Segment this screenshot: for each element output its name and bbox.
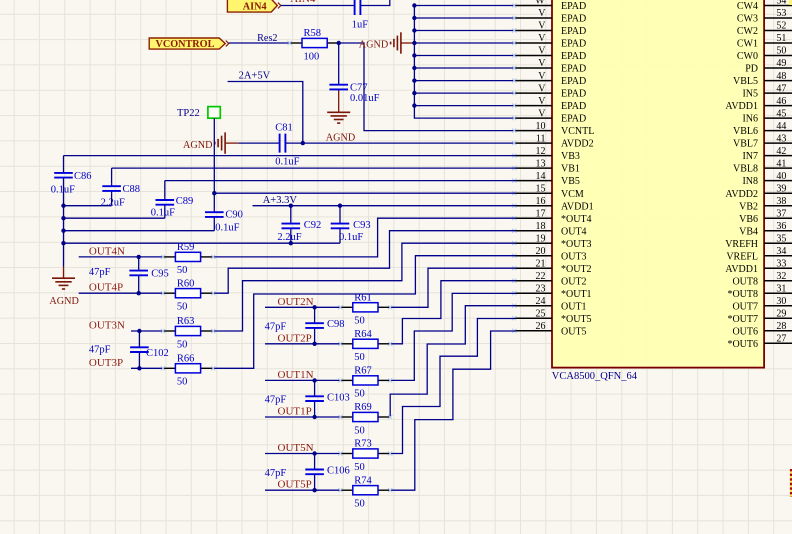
- svg-text:*OUT7: *OUT7: [727, 314, 758, 325]
- wire EPAD row 6: [414, 80, 515, 82]
- svg-text:VB1: VB1: [561, 164, 580, 175]
- wire R63 to pin *OUT3: [213, 243, 515, 331]
- svg-text:V: V: [538, 33, 546, 44]
- svg-text:54: 54: [776, 0, 786, 7]
- svg-text:37: 37: [776, 208, 786, 219]
- wire C90 top lead: [213, 193, 215, 210]
- pin 13 VB1: [515, 158, 580, 174]
- svg-text:OUT3N: OUT3N: [89, 320, 125, 332]
- pin V EPAD: [515, 46, 586, 62]
- pin V EPAD: [515, 83, 586, 99]
- svg-text:OUT2N: OUT2N: [278, 296, 314, 308]
- port AIN4: [227, 0, 280, 13]
- svg-text:50: 50: [354, 425, 365, 436]
- svg-text:C92: C92: [304, 220, 322, 231]
- svg-text:VBL7: VBL7: [733, 139, 758, 150]
- svg-text:23: 23: [536, 283, 546, 294]
- svg-text:28: 28: [776, 321, 786, 332]
- svg-text:10: 10: [536, 121, 546, 132]
- capacitor C92: [282, 220, 301, 231]
- svg-text:0.1uF: 0.1uF: [215, 222, 239, 233]
- pin V EPAD: [515, 71, 586, 87]
- pin 53 CW3: [737, 8, 792, 24]
- pin 50 CW0: [737, 46, 792, 62]
- pin 17 *OUT4: [515, 208, 591, 224]
- pin 39 AVDD2: [725, 183, 792, 199]
- svg-text:C93: C93: [353, 220, 371, 231]
- svg-text:51: 51: [776, 33, 786, 44]
- svg-text:AVDD1: AVDD1: [725, 264, 758, 275]
- pin 36 VB4: [739, 221, 792, 237]
- svg-text:OUT7: OUT7: [732, 301, 758, 312]
- svg-text:0.1uF: 0.1uF: [151, 207, 175, 218]
- pin 35 VREFH: [725, 233, 792, 249]
- wire EPAD row 3: [414, 42, 515, 44]
- pin 14 VB5: [515, 171, 580, 187]
- svg-text:12: 12: [536, 146, 546, 157]
- junction C102 bottom: [137, 366, 141, 370]
- junction C103 top: [312, 378, 316, 382]
- svg-text:V: V: [538, 96, 546, 107]
- junction EPAD bus row 4: [412, 53, 416, 57]
- wire EPAD row 0: [414, 5, 515, 7]
- svg-text:16: 16: [536, 196, 546, 207]
- wire OUT3P left: [131, 367, 163, 369]
- svg-text:50: 50: [177, 339, 188, 350]
- pin 40 IN8: [742, 171, 792, 187]
- no-ERC markers at resistors: [161, 41, 392, 492]
- svg-text:AGND: AGND: [326, 133, 355, 144]
- svg-text:V: V: [538, 8, 546, 19]
- pin 51 CW1: [737, 33, 792, 49]
- svg-text:*OUT3: *OUT3: [561, 239, 592, 250]
- svg-text:OUT3: OUT3: [561, 251, 587, 262]
- svg-text:OUT1N: OUT1N: [278, 369, 314, 381]
- wire AGND to C81: [239, 142, 276, 144]
- svg-text:AVDD1: AVDD1: [561, 201, 594, 212]
- wire R60 to pin OUT4: [213, 231, 515, 294]
- wire AIN4 to C84: [281, 5, 354, 7]
- pin 11 AVDD2: [515, 133, 593, 149]
- resistor R58: [290, 28, 340, 62]
- wire R58 to junction: [339, 43, 516, 131]
- svg-text:30: 30: [776, 296, 786, 307]
- junction bus r17: [61, 216, 65, 220]
- wire C92 top lead: [290, 206, 292, 220]
- svg-text:44: 44: [776, 121, 786, 132]
- junction EPAD bus row 3: [412, 41, 416, 45]
- junction EPAD bus row 5: [412, 66, 416, 70]
- wire OUT4N left: [79, 256, 163, 258]
- svg-text:AVDD2: AVDD2: [725, 189, 758, 200]
- svg-text:C89: C89: [176, 196, 194, 207]
- pin 12 VB3: [515, 146, 580, 162]
- svg-text:OUT2P: OUT2P: [278, 332, 312, 344]
- pin 48 VBL5: [733, 71, 792, 87]
- svg-text:VBL6: VBL6: [733, 126, 758, 137]
- capacitor 1uF (top): [354, 0, 361, 15]
- svg-text:VBL8: VBL8: [733, 164, 758, 175]
- wire row16 left: [64, 205, 112, 207]
- wire C81 to pin AVDD2: [289, 142, 515, 144]
- junction 2A+5V/C81: [301, 141, 305, 145]
- svg-text:OUT4: OUT4: [561, 226, 587, 237]
- pin V EPAD: [515, 96, 586, 112]
- svg-text:27: 27: [776, 334, 786, 345]
- power ground AGND (C81): [183, 132, 239, 153]
- pin V EPAD: [515, 8, 586, 24]
- svg-text:C95: C95: [151, 268, 169, 279]
- svg-text:*OUT1: *OUT1: [561, 289, 592, 300]
- svg-text:47pF: 47pF: [265, 395, 287, 406]
- svg-text:R66: R66: [177, 354, 195, 365]
- svg-text:V: V: [538, 71, 546, 82]
- op-amp U1 VCA8500 body: [552, 0, 764, 368]
- pin 45 IN6: [742, 108, 792, 124]
- svg-text:VB6: VB6: [739, 214, 758, 225]
- pin 44 VBL6: [733, 121, 792, 137]
- svg-text:V: V: [538, 108, 546, 119]
- svg-text:40: 40: [776, 171, 786, 182]
- wire EPAD row 5: [414, 67, 515, 69]
- svg-text:47pF: 47pF: [89, 267, 111, 278]
- svg-text:OUT6: OUT6: [732, 326, 758, 337]
- wire EPAD row 1: [414, 17, 515, 19]
- svg-text:53: 53: [776, 8, 786, 19]
- svg-text:2A+5V: 2A+5V: [239, 70, 271, 81]
- pin 27 *OUT6: [727, 334, 792, 350]
- pin 42 IN7: [742, 146, 792, 162]
- svg-text:V: V: [538, 21, 546, 32]
- wire row19 left: [64, 242, 341, 244]
- pin V EPAD: [515, 0, 586, 12]
- wire C86 top lead: [63, 156, 65, 171]
- svg-text:*OUT2: *OUT2: [561, 264, 592, 275]
- svg-text:R61: R61: [354, 293, 372, 304]
- svg-text:CW4: CW4: [737, 1, 758, 12]
- svg-text:C98: C98: [327, 319, 345, 330]
- svg-text:20: 20: [536, 246, 546, 257]
- svg-text:V: V: [538, 83, 546, 94]
- pin 46 AVDD1: [725, 96, 792, 112]
- svg-text:PD: PD: [745, 64, 758, 75]
- svg-text:47pF: 47pF: [265, 321, 287, 332]
- pin V EPAD: [515, 21, 586, 37]
- svg-text:R63: R63: [177, 316, 195, 327]
- svg-text:C88: C88: [123, 184, 141, 195]
- junction C92 top: [289, 204, 293, 208]
- wire OUT4P left: [79, 292, 163, 294]
- svg-text:OUT1P: OUT1P: [278, 406, 312, 418]
- pin V EPAD: [515, 58, 586, 74]
- wire OUT1N left: [265, 379, 340, 381]
- power ground AGND (bus): [359, 32, 415, 53]
- pin 47 IN5: [742, 83, 792, 99]
- svg-text:42: 42: [776, 146, 786, 157]
- svg-text:R60: R60: [177, 278, 195, 289]
- svg-text:AGND: AGND: [49, 296, 78, 307]
- pin V EPAD: [515, 33, 586, 49]
- svg-text:C103: C103: [327, 392, 350, 403]
- svg-text:VB4: VB4: [739, 226, 758, 237]
- svg-text:50: 50: [354, 499, 365, 510]
- svg-text:11: 11: [536, 133, 546, 144]
- svg-text:13: 13: [536, 158, 546, 169]
- pin 33 AVDD1: [725, 258, 792, 274]
- svg-text:EPAD: EPAD: [561, 89, 586, 100]
- svg-text:IN6: IN6: [742, 114, 758, 125]
- svg-text:50: 50: [177, 377, 188, 388]
- resistor R74: [340, 475, 390, 509]
- wire A+3.3V rail: [253, 205, 516, 207]
- svg-text:17: 17: [536, 208, 546, 219]
- svg-text:1uF: 1uF: [352, 19, 369, 30]
- wire OUT1P left: [265, 416, 340, 418]
- pin 10 VCNTL: [515, 121, 594, 137]
- capacitor C98: [305, 307, 324, 344]
- capacitor C95: [129, 257, 148, 293]
- wire EPAD row 4: [414, 55, 515, 57]
- test point TP22: [177, 107, 220, 120]
- wire VB5 row14: [165, 180, 516, 182]
- capacitor C89: [156, 198, 175, 207]
- wire OUT3N left: [131, 330, 163, 332]
- svg-text:14: 14: [536, 171, 546, 182]
- wire R74 to pin OUT5: [390, 331, 515, 490]
- wire C88 top lead: [111, 168, 113, 184]
- resistor R67: [340, 366, 390, 400]
- pin 54 CW4: [737, 0, 792, 12]
- clipped yellow top-right corner: [789, 0, 792, 5]
- wire R61 to pin *OUT2: [390, 268, 515, 307]
- svg-text:OUT5P: OUT5P: [278, 479, 312, 491]
- wire EPAD row 7: [414, 92, 515, 94]
- svg-text:V: V: [538, 0, 546, 7]
- pin 52 CW2: [737, 21, 792, 37]
- wire VCM row15: [214, 192, 515, 194]
- svg-text:50: 50: [354, 352, 365, 363]
- pin 23 *OUT1: [515, 283, 591, 299]
- pin 31 *OUT8: [727, 283, 792, 299]
- svg-text:VCM: VCM: [561, 189, 584, 200]
- svg-text:IN8: IN8: [742, 176, 758, 187]
- junction C98 top: [312, 305, 316, 309]
- wire C93 top lead: [339, 206, 341, 220]
- junction C93 top: [338, 204, 342, 208]
- wire EPAD bus vertical: [414, 6, 515, 119]
- svg-text:AVDD1: AVDD1: [725, 101, 758, 112]
- svg-text:39: 39: [776, 183, 786, 194]
- capacitor C102: [130, 331, 149, 368]
- svg-text:36: 36: [776, 221, 786, 232]
- svg-text:15: 15: [536, 183, 546, 194]
- svg-text:R59: R59: [177, 242, 195, 253]
- wire R59 to pin *OUT4: [213, 218, 515, 257]
- svg-text:50: 50: [177, 302, 188, 313]
- pin 18 OUT4: [515, 221, 586, 237]
- svg-text:50: 50: [354, 316, 365, 327]
- capacitor C88: [102, 184, 121, 193]
- wire C93 bottom lead: [339, 231, 341, 243]
- svg-text:19: 19: [536, 233, 546, 244]
- svg-text:OUT5N: OUT5N: [278, 442, 314, 454]
- junction R58/C77: [337, 41, 341, 45]
- wire R66 to pin OUT3: [213, 256, 515, 369]
- resistor R61: [340, 293, 390, 327]
- wire EPAD row 2: [414, 30, 515, 32]
- junction C95 bottom: [137, 291, 141, 295]
- port VCONTROL: [149, 38, 229, 50]
- wire 1uF to pin row: [361, 0, 390, 6]
- capacitor C81: [276, 134, 289, 153]
- clipped port right edge: [790, 469, 792, 497]
- junction C106 top: [312, 451, 316, 455]
- svg-text:50: 50: [354, 389, 365, 400]
- resistor R73: [340, 439, 390, 473]
- pin 28 OUT6: [732, 321, 792, 337]
- svg-text:46: 46: [776, 96, 786, 107]
- svg-text:*OUT6: *OUT6: [727, 339, 758, 350]
- wire C89 bottom lead: [164, 207, 166, 218]
- capacitor C90: [205, 210, 224, 219]
- capacitor C86: [54, 171, 73, 181]
- svg-text:VB5: VB5: [561, 176, 580, 187]
- svg-text:VREFL: VREFL: [726, 251, 758, 262]
- svg-text:C81: C81: [275, 123, 293, 134]
- svg-text:OUT4P: OUT4P: [89, 282, 123, 294]
- svg-text:26: 26: [536, 321, 546, 332]
- svg-text:R74: R74: [354, 475, 372, 486]
- svg-text:50: 50: [354, 462, 365, 473]
- svg-text:41: 41: [776, 158, 786, 169]
- svg-text:47pF: 47pF: [265, 468, 287, 479]
- svg-text:48: 48: [776, 71, 786, 82]
- svg-text:EPAD: EPAD: [561, 1, 586, 12]
- svg-text:AGND: AGND: [359, 40, 388, 51]
- junction bus r18: [61, 229, 65, 233]
- svg-text:C102: C102: [146, 348, 169, 359]
- resistor R66: [163, 354, 213, 388]
- svg-text:R67: R67: [354, 366, 372, 377]
- wire OUT2P left: [265, 343, 340, 345]
- svg-text:R64: R64: [354, 329, 372, 340]
- svg-text:38: 38: [776, 196, 786, 207]
- svg-text:*OUT4: *OUT4: [561, 214, 592, 225]
- pin 38 VB2: [739, 196, 792, 212]
- svg-text:OUT1: OUT1: [561, 301, 587, 312]
- svg-text:EPAD: EPAD: [561, 14, 586, 25]
- wire R73 to pin *OUT5: [390, 319, 515, 454]
- capacitor C106: [305, 454, 324, 491]
- junction C103 bottom: [312, 415, 316, 419]
- pin 22 OUT2: [515, 271, 586, 287]
- svg-text:AGND: AGND: [183, 140, 212, 151]
- svg-text:OUT2: OUT2: [561, 276, 587, 287]
- pin 25 *OUT5: [515, 308, 591, 324]
- svg-text:EPAD: EPAD: [561, 39, 586, 50]
- svg-text:OUT8: OUT8: [732, 276, 758, 287]
- svg-text:VCONTROL: VCONTROL: [156, 39, 215, 50]
- pin 49 PD: [745, 58, 792, 74]
- pin V EPAD: [515, 108, 586, 124]
- svg-text:AIN4: AIN4: [290, 0, 316, 5]
- svg-text:VB3: VB3: [561, 151, 580, 162]
- svg-text:52: 52: [776, 21, 786, 32]
- svg-text:AIN4: AIN4: [243, 2, 267, 13]
- wire C92 bottom lead: [290, 231, 292, 243]
- resistor R64: [340, 329, 390, 363]
- resistor R60: [163, 278, 213, 312]
- wire VCONTROL to R58: [229, 42, 290, 44]
- svg-text:VBL5: VBL5: [733, 76, 758, 87]
- svg-text:EPAD: EPAD: [561, 114, 586, 125]
- svg-text:IN5: IN5: [742, 89, 758, 100]
- svg-text:35: 35: [776, 233, 786, 244]
- pin 16 AVDD1: [515, 196, 593, 212]
- ground AGND under C77: [326, 91, 355, 144]
- svg-text:OUT3P: OUT3P: [89, 357, 123, 369]
- junction EPAD bus row 0: [412, 3, 416, 7]
- junction EPAD bus row 1: [412, 16, 416, 20]
- wire row18 left: [64, 230, 215, 232]
- junction C92 bottom: [289, 241, 293, 245]
- svg-text:50: 50: [177, 265, 188, 276]
- capacitor C77: [329, 83, 348, 91]
- svg-text:EPAD: EPAD: [561, 101, 586, 112]
- svg-text:AVDD2: AVDD2: [561, 139, 594, 150]
- svg-text:IN7: IN7: [742, 151, 758, 162]
- svg-text:C90: C90: [225, 210, 243, 221]
- svg-text:TP22: TP22: [177, 108, 200, 119]
- svg-text:*OUT8: *OUT8: [727, 289, 758, 300]
- wire EPAD row 8: [414, 105, 515, 107]
- junction bus r19: [61, 241, 65, 245]
- svg-text:50: 50: [776, 46, 786, 57]
- svg-text:CW0: CW0: [737, 51, 758, 62]
- svg-text:22: 22: [536, 271, 546, 282]
- wire R69 to pin OUT1: [390, 306, 515, 417]
- svg-text:VCA8500_QFN_64: VCA8500_QFN_64: [552, 371, 638, 382]
- pin 32 OUT8: [732, 271, 792, 287]
- svg-text:47: 47: [776, 83, 786, 94]
- svg-text:49: 49: [776, 58, 786, 69]
- wire C90 bottom lead: [213, 219, 215, 231]
- svg-text:47pF: 47pF: [89, 344, 111, 355]
- svg-text:21: 21: [536, 258, 546, 269]
- svg-text:24: 24: [536, 296, 546, 307]
- svg-text:C86: C86: [74, 171, 92, 182]
- resistor R59: [163, 242, 213, 276]
- pin 19 *OUT3: [515, 233, 591, 249]
- svg-text:C77: C77: [350, 82, 368, 93]
- pin 43 VBL7: [733, 133, 792, 149]
- pin 24 OUT1: [515, 296, 586, 312]
- svg-text:EPAD: EPAD: [561, 76, 586, 87]
- pin 41 VBL8: [733, 158, 792, 174]
- wire VB3 row12: [64, 155, 516, 157]
- junction C102 top: [137, 329, 141, 333]
- wire C88 bottom lead: [111, 193, 113, 206]
- junction TP22/VCM/C90: [212, 191, 216, 195]
- svg-text:EPAD: EPAD: [561, 26, 586, 37]
- svg-text:VCNTL: VCNTL: [561, 126, 594, 137]
- ground AGND left bus: [49, 267, 78, 307]
- svg-text:EPAD: EPAD: [561, 64, 586, 75]
- wire OUT2N left: [265, 306, 340, 308]
- svg-text:R58: R58: [304, 28, 322, 39]
- junction C106 bottom: [312, 488, 316, 492]
- pin 26 OUT5: [515, 321, 586, 337]
